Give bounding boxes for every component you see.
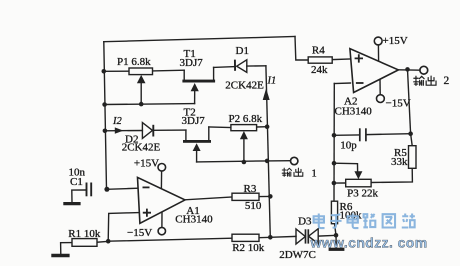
wire A1 + input riser from R1 node [108, 213, 138, 242]
wire P1 wiper stem [140, 83, 142, 105]
wire P2 right to I1 rail [257, 126, 268, 128]
transistor T2 channel bar [183, 140, 211, 143]
diode D1 triangle [237, 60, 247, 73]
junction node rail / P3 left [332, 181, 337, 186]
junction node left rail / I2 wire [103, 129, 108, 134]
junction node C1 / A1 minus [104, 187, 109, 192]
wire R4 to A2 + input [332, 58, 350, 61]
wire A2 output node down to 10p junction [408, 69, 411, 133]
svg-text:+15V: +15V [383, 35, 408, 47]
svg-text:P1 6.8k: P1 6.8k [117, 56, 151, 68]
wire I1 vertical rail [266, 66, 270, 237]
svg-text:R2 10k: R2 10k [232, 242, 265, 254]
svg-text:+15V: +15V [134, 158, 159, 170]
resistor R3 body [232, 193, 259, 200]
capacitor C2 10p plates [359, 128, 361, 141]
potentiometer P2 wiper arrow [240, 131, 248, 139]
wire R3 right to I1 rail [259, 195, 270, 197]
svg-text:www.cndzz. com: www.cndzz. com [310, 235, 428, 251]
wire I2 from left rail to D2 anode [105, 130, 142, 132]
terminal 输出1 [291, 157, 298, 164]
wire to output1 terminal [267, 160, 290, 162]
svg-text:P2 6.8k: P2 6.8k [229, 113, 263, 125]
diode D3 left triangle [296, 229, 305, 244]
wire left vertical rail [104, 42, 107, 190]
svg-text:10p: 10p [340, 140, 357, 152]
wire 10p right segment [366, 133, 410, 136]
wire R6 bottom stem [335, 224, 337, 236]
junction node R3 / I1 rail [268, 194, 273, 199]
op-amp A1 minus input sign [143, 186, 150, 188]
wire top rail from left rail to R4 corner [104, 37, 295, 42]
svg-text:2CK42E: 2CK42E [225, 80, 264, 92]
potentiometer P1 body [129, 68, 153, 75]
wire T1 drain lead [213, 67, 215, 79]
wire T2 drain lead [208, 127, 210, 140]
wire C1 left stub to ground [72, 190, 86, 203]
wire A2 - input to feedback rail [334, 82, 350, 85]
junction node D3 / R6 / ground [334, 233, 339, 238]
current arrow I2 (right) [115, 127, 124, 133]
wire 10p junction to R5 top [411, 134, 413, 146]
junction node left rail / gate rail [102, 102, 107, 107]
wire gate net y=162 to I1 rail [197, 161, 268, 162]
wire R2 right to I1 rail [259, 236, 270, 238]
junction node P2 right / I1 rail [265, 124, 270, 129]
wire A2 output to node and terminal [398, 69, 420, 71]
diode D2 cathode bar [152, 125, 154, 137]
wire R5 bottom to P3 right [371, 168, 412, 182]
wire T1 source lead [183, 70, 185, 79]
svg-text:510: 510 [245, 200, 262, 212]
ground at R1 [51, 254, 69, 257]
wire T1 gate stem [194, 91, 196, 104]
wire A1 +15V stem [160, 171, 162, 188]
node label 输出 1 (output 1 hanzi) [282, 168, 291, 176]
wire T1 drain to D1 cathode [214, 66, 235, 69]
svg-text:3DJ7: 3DJ7 [180, 57, 204, 69]
wire 10p left segment [334, 134, 359, 136]
junction node left rail / P1 [102, 69, 107, 74]
resistor R1 body [72, 239, 97, 247]
op-amp A1 triangle [138, 177, 186, 223]
diode D2 triangle [142, 123, 152, 139]
wire P3 left to feedback rail [334, 182, 346, 184]
wire A2 feedback rail down [333, 84, 335, 202]
wire ground3 stem [335, 235, 337, 248]
diode D3 right triangle [309, 229, 319, 244]
diode D1 cathode bar [234, 60, 236, 71]
potentiometer P3 wiper arrow (down) [354, 171, 362, 179]
svg-text:I1: I1 [267, 76, 277, 87]
op-amp A2 plus input sign [355, 54, 363, 62]
svg-text:24k: 24k [311, 64, 328, 76]
wire P3 wiper tap from rail [334, 163, 358, 171]
svg-text:−15V: −15V [386, 98, 411, 110]
wire R2 node to D3 left [270, 235, 296, 238]
wire A1 -15V stem [161, 212, 163, 228]
svg-text:2: 2 [444, 75, 450, 87]
wire R1 left lead to ground [61, 243, 72, 255]
junction node y162 / I1 rail [265, 159, 270, 164]
potentiometer P1 wiper arrow [137, 75, 146, 83]
wire A1 output to R3 [185, 197, 232, 200]
wire P2 wiper stem [243, 139, 245, 163]
ground at C1 [63, 202, 80, 205]
svg-text:D3: D3 [298, 216, 312, 228]
junction node R2 / I1 rail [268, 235, 273, 240]
wire D2 cathode to T2 source [154, 129, 186, 131]
wire D1 anode to corner [247, 65, 266, 67]
node label 输出 2 (output 2 hanzi) [414, 76, 424, 85]
resistor R4 body [308, 57, 332, 63]
potentiometer P2 body [231, 125, 257, 131]
svg-text:2DW7C: 2DW7C [279, 249, 316, 261]
terminal A1 +15V [158, 164, 166, 172]
wire T2 gate stem [196, 150, 198, 162]
svg-text:C1: C1 [70, 176, 83, 188]
wire left rail to P1 left [104, 70, 129, 72]
op-amp A1 plus input sign [143, 209, 151, 217]
junction node rail / P3 wiper [332, 161, 337, 166]
transistor T1 gate arrow [191, 83, 199, 91]
wire R1 node to R2 left [108, 238, 232, 241]
op-amp A2 triangle [350, 49, 399, 93]
svg-text:I2: I2 [112, 116, 122, 127]
watermark line 1: 电子电路图站 [314, 213, 415, 228]
ground at D3/R6 [329, 248, 345, 251]
wire T2 drain to P2 left [209, 126, 231, 129]
diode D3 center bars [305, 229, 307, 243]
wire T2 source lead [185, 130, 187, 140]
resistor R2 body [232, 234, 259, 241]
junction node A2 output [405, 67, 410, 72]
wire A2 -15V stem [379, 79, 381, 95]
junction node P2 wiper / y162 net [242, 160, 247, 165]
current arrow I1 (up) [263, 88, 270, 100]
terminal 输出2 [420, 66, 428, 74]
svg-text:CH3140: CH3140 [335, 105, 373, 117]
svg-text:−15V: −15V [127, 227, 152, 239]
transistor T2 gate arrow [193, 143, 201, 151]
potentiometer P3 body [346, 179, 371, 187]
svg-text:D1: D1 [236, 45, 249, 57]
junction node rail / 10p [332, 133, 337, 138]
capacitor C1 plates [86, 183, 88, 197]
wire corner down to R4 [295, 37, 308, 61]
svg-text:2CK42E: 2CK42E [122, 141, 161, 153]
terminal A1 -15V [158, 227, 165, 234]
junction node R1 / A1 plus [106, 239, 111, 244]
wire A2 +15V stem [377, 45, 379, 61]
wire gate rail y=104 [105, 103, 195, 106]
svg-text:R3: R3 [244, 183, 257, 195]
junction node P1 wiper / gate rail [139, 102, 144, 107]
svg-text:1: 1 [312, 169, 317, 180]
wire D3 right to ground node [318, 234, 336, 237]
resistor R6 body [331, 201, 337, 224]
terminal A2 -15V [377, 95, 385, 103]
op-amp A2 minus input sign [356, 82, 364, 84]
svg-text:R1 10k: R1 10k [68, 228, 101, 240]
svg-text:P3 22k: P3 22k [347, 187, 378, 199]
transistor T1 channel bar [182, 80, 215, 83]
svg-text:R4: R4 [312, 45, 325, 57]
svg-text:CH3140: CH3140 [175, 214, 213, 226]
junction node right rail / 10p [408, 131, 413, 136]
svg-text:33k: 33k [391, 156, 408, 168]
svg-text:3DJ7: 3DJ7 [182, 115, 206, 127]
wire C1 to A1 - input [107, 188, 138, 189]
wire R1 right lead [97, 240, 108, 243]
resistor R5 body [409, 146, 417, 169]
wire P1 right to T1 source [153, 69, 185, 72]
terminal A2 +15V [374, 37, 382, 45]
